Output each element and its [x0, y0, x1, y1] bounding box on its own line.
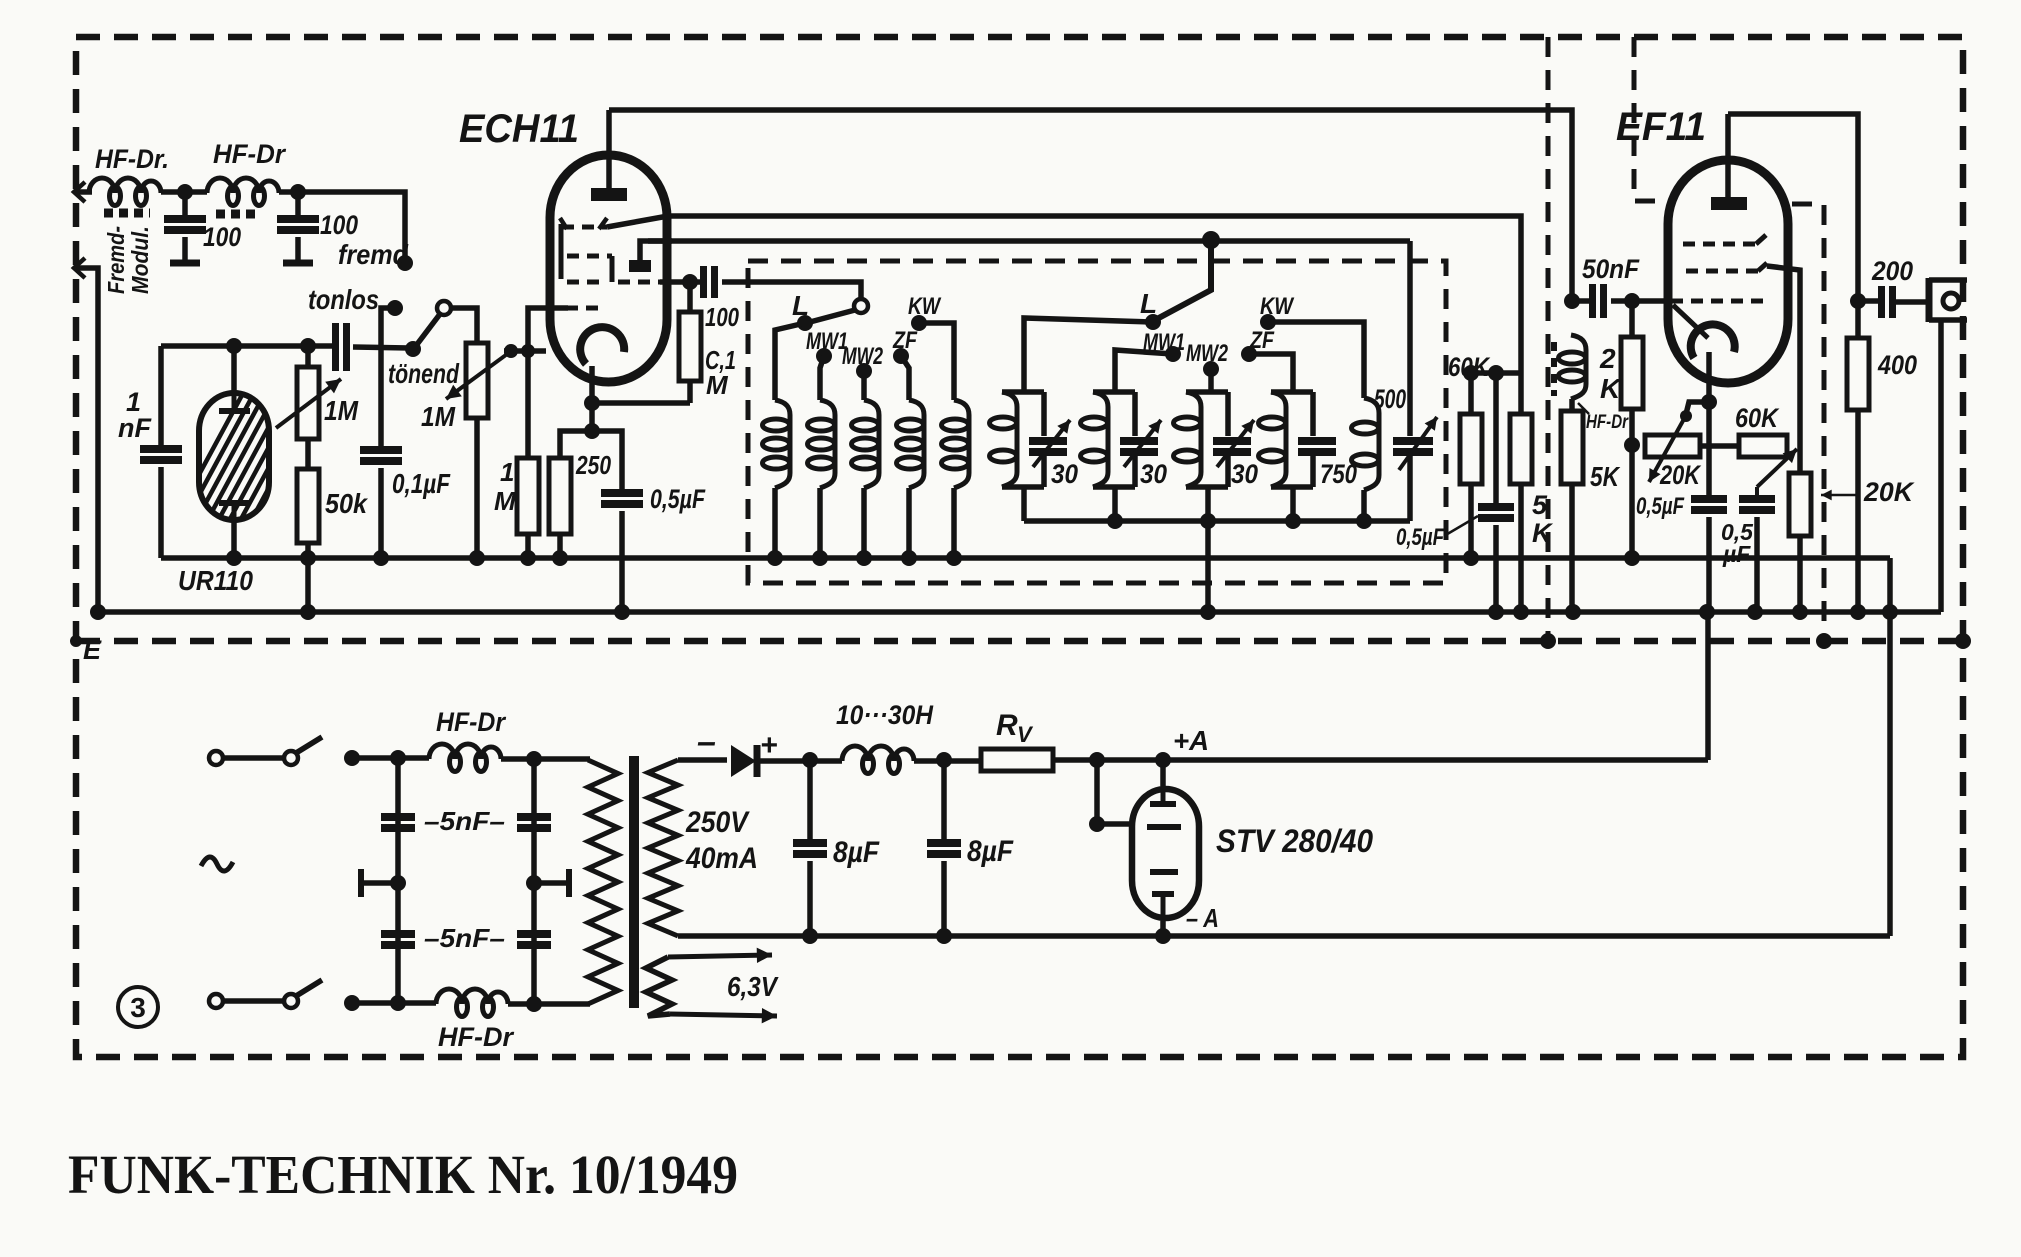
svg-text:30: 30: [1140, 459, 1167, 489]
node filter rail1 top: [390, 750, 406, 766]
svg-text:nF: nF: [118, 413, 152, 443]
svg-text:30: 30: [1231, 459, 1258, 489]
resistor RV: [981, 749, 1053, 771]
svg-text:EF11: EF11: [1616, 105, 1706, 149]
node filter rail2 top: [526, 751, 542, 767]
svg-text:0,5µF: 0,5µF: [650, 484, 706, 514]
transformer heater winding: [646, 957, 672, 1016]
node grid4 junction a: [504, 344, 518, 358]
ECH11 hexode anode lead: [640, 241, 672, 260]
wire secondary top to diode: [678, 757, 727, 763]
ECH11 anode plate bar: [591, 188, 627, 201]
node cathode-RC junction: [584, 423, 600, 439]
resistor 20K (screen feed): [1797, 448, 1803, 473]
wire L to tank1: [1024, 318, 1153, 392]
wire MW1 contact to coil2: [820, 356, 824, 400]
wire choke to transformer: [501, 756, 590, 762]
resistor 2K: [1629, 301, 1635, 337]
wire UR110 box top: [161, 343, 311, 349]
wire 0,5uF to chassis bus: [619, 511, 625, 612]
wire bus1 end to -A riser: [1887, 558, 1893, 936]
node L contact (bank1): [797, 315, 813, 331]
resistor 60K (AVC): [1468, 373, 1474, 414]
capacitor 0,5uF (AVC): [1493, 373, 1499, 503]
wire antenna input: [76, 189, 92, 195]
wire cathode to 20K wiper: [1686, 402, 1709, 414]
svg-text:V: V: [1017, 722, 1034, 747]
svg-text:MW2: MW2: [1186, 340, 1228, 367]
EF11 cathode arc: [1691, 324, 1735, 358]
core dashes under choke 2: [216, 210, 258, 219]
svg-text:100: 100: [203, 222, 241, 252]
tube EF11 envelope: [1668, 160, 1788, 383]
node EF11 cathode junction: [1701, 394, 1717, 410]
mains switch 2: [209, 994, 223, 1008]
wire filter rail1: [395, 758, 401, 1003]
wire tank2 bottom: [1112, 487, 1118, 521]
STV top lead: [1160, 760, 1166, 786]
dashed section divider line (chassis E): [76, 638, 1963, 645]
node MW2 contact (bank1): [856, 363, 872, 379]
svg-text:L: L: [792, 290, 809, 321]
svg-text:2: 2: [1599, 343, 1616, 374]
svg-text:M: M: [706, 370, 729, 400]
wire bank1 coil MW1 to bus: [817, 488, 823, 558]
svg-text:HF-Dr: HF-Dr: [1586, 412, 1629, 433]
wire bank1 coil L to bus: [772, 488, 778, 558]
capacitor 0,5uF (cathode): [1706, 402, 1712, 495]
wire filter rail2: [531, 759, 537, 1003]
capacitor 50nF: [1572, 298, 1592, 304]
resistor 5K (AVC): [1518, 373, 1524, 414]
svg-text:200: 200: [1871, 256, 1913, 286]
inductor HF-Dr (mains filter top): [429, 744, 501, 759]
tank circuit 1 (L, 30pF): [1002, 389, 1044, 395]
svg-text:Modul.: Modul.: [127, 226, 153, 294]
node rail2 bottom: [526, 996, 542, 1012]
capacitor 0,5uF (screen): [1739, 495, 1775, 503]
dashed coil-pack box: [748, 261, 1446, 583]
node bank2 chassis junction: [1200, 604, 1216, 620]
svg-text:R: R: [996, 709, 1018, 742]
svg-text:8µF: 8µF: [833, 836, 880, 869]
inductor bank1 coil L: [775, 400, 790, 488]
svg-text:5K: 5K: [1590, 461, 1620, 492]
svg-text:30: 30: [1051, 459, 1078, 489]
node fremd contact: [397, 255, 413, 271]
inductor HF-Dr (2nd antenna choke): [207, 178, 279, 193]
wire diode to choke: [760, 758, 842, 764]
node STV -A junction: [1155, 928, 1171, 944]
svg-text:0,1µF: 0,1µF: [392, 468, 451, 499]
inductor HF-Dr (EF11 grid choke): [1571, 335, 1586, 399]
node 20K wiper dot: [1680, 410, 1692, 422]
wire cathode cap to +A riser: [1706, 517, 1712, 612]
node 0,5uF top junction: [1488, 365, 1504, 381]
node bank2 switch feed: [1202, 231, 1220, 249]
node 50nF junction: [1564, 293, 1580, 309]
antenna terminal chevron 2: [74, 258, 85, 278]
ground tick right: [534, 880, 569, 886]
wire choke2 to transformer: [508, 1001, 590, 1007]
wire to 250 resistor: [560, 431, 592, 458]
capacitor 500 trimmer: [1407, 241, 1413, 436]
60K wiper arrow: [1755, 487, 1759, 495]
wire MW2 to tank3: [1208, 369, 1214, 392]
wire 250 to bus: [557, 534, 563, 558]
node cathode junction: [584, 395, 600, 411]
wire bank1 coil ZF to bus: [906, 488, 912, 558]
EF11 cathode lead: [1706, 352, 1712, 402]
mains tilde: [201, 857, 233, 871]
wire KW coil bottom: [1361, 490, 1367, 521]
inductor HF-Dr. (1st antenna choke): [89, 178, 161, 193]
svg-text:HF-Dr: HF-Dr: [436, 707, 506, 737]
wire mains top: [352, 755, 429, 761]
wire 0,1uF to bus: [378, 468, 384, 558]
svg-text:20K: 20K: [1863, 477, 1915, 507]
series trimmer capacitor (box top): [311, 343, 335, 349]
svg-text:M: M: [494, 486, 517, 516]
capacitor 0,1uF: [360, 446, 402, 454]
EF11 grid1 dashes: [1671, 299, 1768, 304]
node bank1 coil ZF bus junction: [901, 550, 917, 566]
wire 200 cap to jack: [1896, 299, 1929, 305]
svg-text:HF-Dr.: HF-Dr.: [95, 144, 169, 174]
potentiometer 60K (screen): [1739, 435, 1787, 457]
node mains wire 2 start: [344, 995, 360, 1011]
svg-text:L: L: [1140, 288, 1157, 319]
potentiometer 1M (UR110): [305, 346, 311, 367]
wire grid2 bus: [648, 238, 1410, 244]
svg-text:fremd: fremd: [338, 239, 409, 270]
wire ZF to tank4: [1249, 354, 1293, 392]
node tank3 link junction: [1200, 513, 1216, 529]
svg-text:tönend: tönend: [388, 358, 460, 389]
node resistor chain top: [300, 338, 316, 354]
svg-text:FUNK-TECHNIK Nr. 10/1949: FUNK-TECHNIK Nr. 10/1949: [68, 1144, 738, 1205]
svg-text:–5nF–: –5nF–: [424, 923, 505, 953]
capacitor 200 (output): [1858, 298, 1881, 304]
svg-text:6,3V: 6,3V: [727, 971, 779, 1002]
node rail1 bottom: [390, 995, 406, 1011]
svg-text:0,5µF: 0,5µF: [1396, 524, 1445, 551]
wire MW2 contact to coil3: [861, 371, 867, 400]
wire C1M return: [592, 400, 690, 406]
resistor 250: [549, 458, 571, 534]
node 8uF-2 bottom: [936, 928, 952, 944]
wire bus2 (chassis): [98, 609, 1941, 615]
ECH11 grid2-3 link: [610, 256, 615, 282]
svg-text:ZF: ZF: [892, 327, 918, 354]
svg-text:0,5µF: 0,5µF: [1636, 493, 1685, 520]
node L contact (bank2): [1145, 314, 1161, 330]
node rail1 ground tap: [390, 875, 406, 891]
wire choke1 to choke2: [161, 189, 207, 195]
wire pot to 60K pot: [1700, 443, 1739, 449]
node 2K top junction: [1624, 293, 1640, 309]
transformer core: [629, 756, 639, 1008]
wire cathode junction down: [589, 403, 595, 431]
node grid4 junction b: [521, 344, 535, 358]
ECH11 grid3 dashes: [567, 280, 600, 285]
inductor bank1 coil MW2: [864, 400, 879, 488]
wire coupling cap to band switch: [722, 282, 861, 299]
wire tank1 bottom: [1021, 487, 1027, 521]
wire grid leak down: [525, 351, 531, 458]
node bank1 coil KW bus junction: [946, 550, 962, 566]
switch pivot (tone switch): [437, 301, 451, 315]
svg-text:+A: +A: [1173, 725, 1209, 756]
ECH11 anode lead: [606, 110, 612, 188]
ECH11 hexode anode bar: [629, 260, 651, 272]
node EF11 output junction: [1850, 293, 1866, 309]
svg-text:K: K: [1532, 518, 1554, 548]
svg-text:tonlos: tonlos: [308, 284, 379, 315]
wire to 0,5uF cap: [592, 431, 622, 489]
EF11 anode plate bar: [1711, 197, 1747, 210]
inductor bank1 coil KW: [954, 400, 969, 488]
svg-text:HF-Dr: HF-Dr: [213, 139, 286, 169]
wire 20K screen to bus2: [1797, 536, 1803, 612]
resistor 400: [1847, 338, 1869, 410]
wire osc bus junction bar: [1471, 370, 1521, 376]
node bank1 coil MW2 bus junction: [856, 550, 872, 566]
capacitor 5nF b: [517, 813, 551, 821]
heater arrows 6,3V: [668, 955, 772, 957]
antenna terminal chevron 1: [74, 182, 85, 202]
svg-text:UR110: UR110: [178, 565, 253, 596]
svg-text:1M: 1M: [324, 395, 359, 426]
svg-text:5: 5: [1532, 490, 1548, 520]
inductor HF-Dr (mains filter bottom): [436, 989, 508, 1004]
node grid3 cap junction: [682, 274, 698, 290]
wire UR110 box left rail upper: [158, 346, 164, 445]
svg-text:400: 400: [1877, 350, 1917, 380]
svg-text:250: 250: [575, 450, 611, 480]
wire lamp top lead: [231, 346, 237, 396]
transformer primary winding: [588, 760, 618, 1004]
wire tank3 bottom: [1205, 487, 1211, 521]
inductor bank1 coil ZF: [909, 400, 924, 488]
output jack: [1926, 278, 1933, 322]
wire tank4 bottom: [1290, 487, 1296, 521]
glow lamp UR110 envelope: [199, 393, 269, 520]
svg-text:ECH11: ECH11: [459, 107, 579, 151]
svg-text:10···30H: 10···30H: [836, 700, 933, 730]
wire bank1 coil KW to bus: [951, 488, 957, 558]
switch arm (tone switch): [415, 314, 440, 347]
wire antenna 2 down to chassis bus: [76, 268, 98, 612]
wire L contact to coil1: [775, 323, 805, 400]
node bank1 coil L bus junction: [767, 550, 783, 566]
core dashes under choke 1: [104, 209, 150, 218]
capacitor 100 (1st bypass): [182, 192, 188, 215]
svg-text:KW: KW: [1260, 293, 1295, 320]
inductor bank1 coil MW1: [820, 400, 835, 488]
ECH11 grid1 dashes: [562, 225, 607, 230]
node 8uF-1 bottom: [802, 928, 818, 944]
svg-text:60K: 60K: [1735, 403, 1780, 433]
resistor 50k: [297, 469, 319, 543]
svg-text:20K: 20K: [1659, 460, 1702, 490]
node lamp top: [226, 338, 242, 354]
resistor 5K (EF11 grid): [1561, 411, 1583, 484]
svg-text:– A: – A: [1186, 903, 1219, 933]
capacitor 100 (ECH11 grid coupling): [700, 266, 707, 298]
svg-text:E: E: [83, 635, 102, 665]
node KW contact (bank2): [1260, 314, 1276, 330]
capacitor 5nF a: [381, 813, 415, 821]
svg-text:STV 280/40: STV 280/40: [1216, 823, 1373, 859]
capacitor 0,5uF (ECH11 cathode): [601, 489, 643, 497]
diode rectifier: [731, 745, 756, 777]
wire grid3 to cap: [660, 279, 704, 285]
node 60K top junction: [1463, 365, 1479, 381]
svg-text:1: 1: [500, 457, 514, 487]
wire 2K down: [1629, 409, 1635, 558]
svg-text:–: –: [697, 723, 716, 761]
node tonlos contact: [387, 300, 403, 316]
circled 3 mark: [118, 987, 158, 1027]
wire grid leak to bus: [525, 534, 531, 558]
capacitor 5nF c: [381, 930, 415, 938]
switch pivot (band switch 1): [854, 299, 868, 313]
potentiometer 20K (cathode): [1645, 435, 1700, 457]
svg-text:Fremd-: Fremd-: [103, 226, 129, 294]
wire anode bus (to EF11 grid): [609, 110, 1572, 301]
tube ECH11 envelope: [550, 155, 667, 382]
wire jack sleeve to bus2: [1938, 320, 1944, 612]
wire lamp bottom lead: [231, 520, 237, 558]
node mains wire 1 start: [344, 750, 360, 766]
wire -A rail: [678, 933, 1890, 939]
resistor 1M (ECH11 grid leak): [517, 458, 539, 534]
svg-text:K: K: [1600, 373, 1622, 404]
ECH11 grid bracket: [559, 224, 564, 279]
node tank2 link junction: [1107, 513, 1123, 529]
inductor 10-30H filter choke: [842, 746, 914, 761]
ECH11 cathode lead: [589, 366, 595, 403]
wire bank2 to chassis bus: [1205, 521, 1211, 612]
wire EF11 anode to output network: [1728, 114, 1858, 612]
wire KW contact to coil5: [919, 323, 954, 400]
svg-text:100: 100: [320, 210, 358, 240]
wire bank1 coil MW2 to bus: [861, 488, 867, 558]
inductor bank2 KW coil: [1364, 398, 1379, 490]
tank circuit 3 (MW2, 30pF): [1186, 389, 1228, 395]
svg-text:KW: KW: [908, 293, 942, 320]
svg-text:50nF: 50nF: [1582, 254, 1640, 284]
wire choke to RV: [914, 758, 981, 764]
svg-text:ZF: ZF: [1249, 327, 1275, 354]
EF11 anode lead: [1725, 114, 1731, 197]
node bank1 coil MW1 bus junction: [812, 550, 828, 566]
svg-text:MW2: MW2: [842, 343, 883, 370]
wire 5K AVC to bus2: [1518, 484, 1524, 612]
capacitor 8uF #2: [941, 760, 947, 839]
wire 60K to bus1: [1468, 484, 1474, 558]
node ZF contact (bank2): [1241, 346, 1257, 362]
STV left electrode wire: [1097, 760, 1129, 824]
svg-text:µF: µF: [1722, 541, 1751, 567]
node ZF contact (bank1): [893, 348, 909, 364]
node rail2 ground tap: [526, 875, 542, 891]
ECH11 grid2 dashes: [567, 254, 612, 259]
svg-text:100: 100: [705, 302, 739, 332]
wire screen cap to bus2: [1754, 517, 1760, 612]
ECH11 grid4 dashes: [566, 306, 606, 311]
wire oscillator bus: [607, 216, 1521, 373]
wire choke to 5K: [1569, 399, 1575, 411]
wire grid4 out left: [528, 308, 568, 350]
node 20K pot left junction: [1624, 437, 1640, 453]
wire 50nF to grid: [1611, 298, 1668, 304]
svg-text:250V: 250V: [685, 806, 751, 839]
EF11 g3-cathode strap: [1673, 305, 1708, 338]
node KW coil link junction: [1356, 513, 1372, 529]
node 60K bus1 junction: [1463, 550, 1479, 566]
STV bottom lead: [1160, 921, 1166, 936]
wire RV to +A: [1053, 757, 1708, 763]
ECH11 cathode arc: [580, 327, 624, 364]
switch arm (band switch 2): [1155, 240, 1211, 320]
wire 0,5uF AVC to bus2: [1493, 525, 1499, 612]
svg-text:50k: 50k: [325, 488, 368, 519]
svg-text:HF-Dr: HF-Dr: [438, 1022, 514, 1052]
node bus1 junctions: [226, 550, 242, 566]
capacitor 100 (2nd bypass): [295, 192, 301, 215]
wire 5K EF11 to bus2: [1569, 484, 1575, 612]
dashed divider junction dots: [70, 635, 82, 647]
wire 1M to 50k: [305, 439, 311, 469]
EF11 grid2 dashes: [1686, 269, 1758, 274]
wire MW1 to tank2: [1115, 350, 1173, 392]
svg-text:3: 3: [130, 992, 146, 1023]
wire bus1 (signal return): [161, 555, 1890, 561]
outer dashed enclosure border: [76, 37, 1963, 1057]
svg-text:40mA: 40mA: [685, 842, 758, 875]
capacitor 1nF: [140, 445, 182, 453]
STV electrode bars: [1150, 801, 1176, 807]
node junction at cap 100 #1: [177, 184, 193, 200]
svg-text:+: +: [760, 729, 778, 762]
mains switch 1: [209, 751, 223, 765]
dashed EF11 screen box: [1634, 37, 1664, 201]
wire to fremd contact: [279, 192, 405, 258]
node toenend contact: [405, 341, 421, 357]
wire +A riser: [1705, 612, 1711, 760]
ground tick left: [361, 880, 398, 886]
node MW2 contact (bank2): [1203, 361, 1219, 377]
tank circuit 4 (ZF, 750pF): [1271, 389, 1313, 395]
potentiometer 1M (toenend): [466, 343, 488, 418]
node STV top junction: [1155, 752, 1171, 768]
node MW1 contact (bank2): [1165, 346, 1181, 362]
node 8uF-2 top: [936, 752, 952, 768]
transformer secondary HV winding: [648, 760, 678, 936]
node MW1 contact (bank1): [816, 348, 832, 364]
resistor C,1 M: [687, 282, 693, 312]
tube STV envelope: [1132, 789, 1199, 918]
svg-text:8µF: 8µF: [967, 835, 1014, 868]
wire 50k to buses: [305, 543, 311, 612]
wire UR110 box left rail lower: [158, 467, 164, 558]
wire grid junction link: [504, 348, 546, 354]
dashed mid vertical divider: [1546, 37, 1551, 641]
node STV left junction: [1089, 752, 1105, 768]
capacitor 5nF d: [517, 930, 551, 938]
